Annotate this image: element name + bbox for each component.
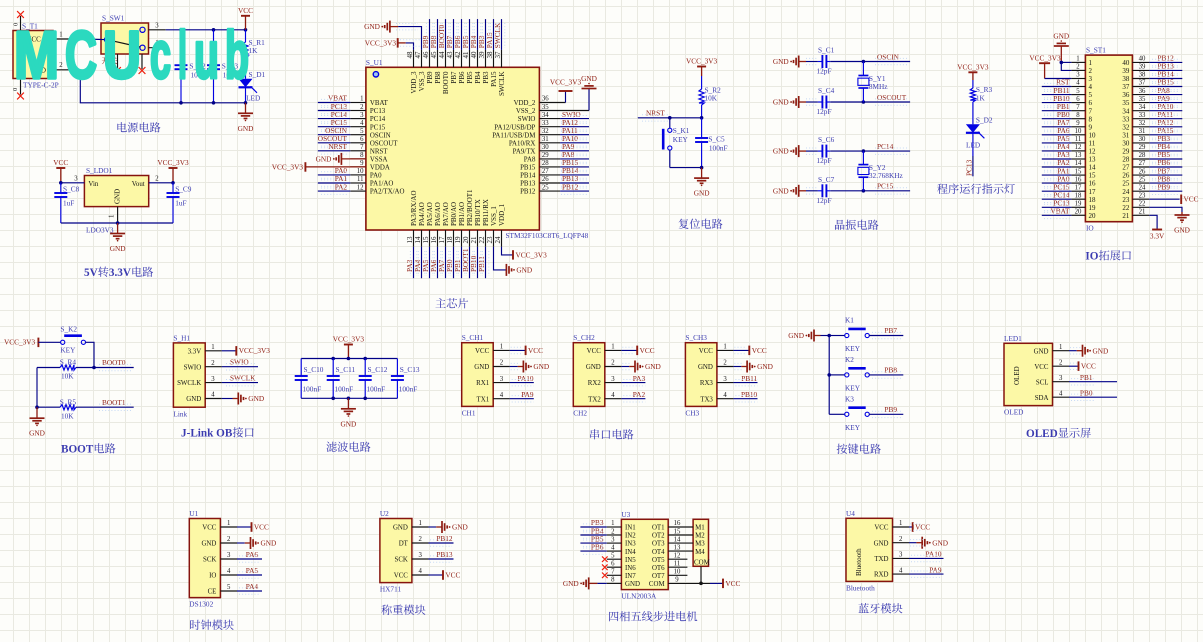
svg-text:S_D1: S_D1 — [249, 70, 266, 79]
svg-text:5: 5 — [227, 584, 231, 591]
svg-text:SCK: SCK — [203, 557, 216, 564]
capacitor C2 104 — [180, 30, 182, 65]
svg-text:GND: GND — [1053, 32, 1069, 41]
wire and net label PB12 — [560, 190, 589, 192]
svg-text:S_CH1: S_CH1 — [462, 333, 484, 342]
net label NRST and wire — [638, 117, 702, 119]
U1 bottom pin 20 PB2/BOOT1 — [469, 230, 471, 247]
wire and net label PA10 — [560, 142, 589, 144]
ST1 left pin 2 — [1071, 69, 1085, 71]
LDO regulator LDO1 LDO3V3 — [84, 176, 148, 207]
VCC power symbol at LDO input — [56, 167, 65, 169]
svg-text:M4: M4 — [695, 549, 705, 556]
CH3 pin 2 GND — [717, 366, 734, 368]
svg-text:GND: GND — [773, 57, 789, 66]
svg-text:PA3: PA3 — [633, 374, 646, 383]
capacitor C11 100nF — [332, 359, 334, 377]
U3 OT6 stub — [668, 566, 687, 568]
CH3 PB10 net — [733, 398, 757, 400]
svg-text:S_D2: S_D2 — [976, 116, 993, 125]
GND symbol power circuit — [245, 103, 247, 114]
svg-text:16: 16 — [1089, 180, 1097, 188]
ST1 left pin 9 — [1071, 126, 1085, 128]
wire and net label BOOT0 — [94, 367, 134, 369]
svg-text:PC15: PC15 — [370, 124, 386, 131]
svg-text:4: 4 — [611, 544, 615, 551]
svg-text:34: 34 — [1122, 107, 1130, 115]
ST1 pin 21 to 3.3V — [1149, 215, 1157, 229]
U1 top pin 38 PA15 — [493, 50, 495, 67]
svg-text:GND: GND — [874, 540, 889, 547]
svg-text:COM: COM — [694, 560, 710, 567]
U1 clock net PA5 — [237, 574, 262, 576]
U3 net PB4 — [580, 534, 606, 536]
wire and net label PA2 — [318, 190, 351, 192]
svg-text:19: 19 — [1089, 204, 1097, 212]
title 串口电路 — [590, 429, 599, 439]
wire and net label PA8 — [560, 158, 589, 160]
svg-text:S_C10: S_C10 — [304, 365, 324, 374]
svg-text:IO: IO — [209, 573, 216, 580]
svg-text:VCC_3V3: VCC_3V3 — [550, 78, 582, 87]
svg-text:S_K2: S_K2 — [60, 325, 77, 334]
svg-text:BOOT1: BOOT1 — [102, 398, 126, 407]
svg-text:4: 4 — [723, 392, 727, 399]
junction dots crystal 1 — [862, 60, 866, 64]
svg-text:21: 21 — [1139, 209, 1146, 216]
VCC_3V3 power symbol filter — [344, 344, 353, 346]
U1 bottom pin 14 PA4/AO — [421, 230, 423, 247]
ST1 right pin 22 — [1132, 206, 1149, 208]
wire and net label PA15 — [1149, 134, 1182, 136]
svg-text:PB15: PB15 — [520, 165, 536, 172]
title 复位电路 — [679, 219, 689, 229]
ST1 right pin 38 — [1132, 78, 1149, 80]
U2 GND net — [429, 526, 437, 528]
svg-text:PB1: PB1 — [1080, 373, 1093, 382]
svg-text:15: 15 — [674, 528, 681, 535]
svg-text:11: 11 — [357, 176, 364, 183]
U1 bottom pin 18 PB0/AO — [453, 230, 455, 247]
svg-text:25: 25 — [1139, 176, 1146, 183]
wire and net label PA9 — [560, 150, 589, 152]
svg-text:PA12/USB/DP: PA12/USB/DP — [494, 124, 535, 131]
wire and net label PA15 — [493, 19, 495, 50]
svg-text:IN2: IN2 — [625, 533, 636, 540]
VCC power symbol top right — [241, 15, 250, 17]
svg-text:39: 39 — [1139, 64, 1146, 71]
CH3 GND net — [733, 366, 741, 368]
U3 net PB3 — [580, 526, 606, 528]
wire and net label PC14 — [1042, 198, 1072, 200]
svg-text:27: 27 — [1139, 160, 1146, 167]
svg-text:39: 39 — [1122, 67, 1130, 75]
svg-text:26: 26 — [1139, 168, 1146, 175]
wire to net OSCIN — [830, 61, 910, 63]
svg-text:NRST: NRST — [646, 108, 665, 117]
wire and net label PB0 — [453, 247, 455, 278]
ST1 right pin 27 — [1132, 166, 1149, 168]
svg-text:26: 26 — [1122, 172, 1130, 180]
svg-text:12: 12 — [357, 184, 364, 191]
junction dots NRST node — [668, 116, 672, 120]
wire and net label PB6 — [461, 19, 463, 50]
svg-text:GND: GND — [238, 124, 254, 133]
svg-text:VCC_3V3: VCC_3V3 — [4, 338, 36, 347]
svg-text:J-Link OB: J-Link OB — [181, 428, 233, 440]
svg-text:CH1: CH1 — [462, 409, 476, 418]
svg-text:21: 21 — [1122, 212, 1130, 220]
capacitor S_C7 12pF — [806, 190, 818, 192]
U1 bottom pin 13 PA3/RX/AO — [413, 230, 415, 247]
capacitor C13 100nF — [396, 359, 398, 377]
filter top rail — [301, 358, 397, 360]
svg-text:GND: GND — [186, 396, 201, 403]
svg-text:VCC_3V3: VCC_3V3 — [272, 162, 304, 171]
svg-text:VDD_3: VDD_3 — [410, 71, 418, 94]
svg-text:34: 34 — [542, 112, 549, 119]
svg-text:S_U1: S_U1 — [366, 58, 383, 67]
svg-text:VCC_3V3: VCC_3V3 — [157, 158, 189, 167]
switch SW1 — [101, 23, 149, 54]
U3 pin 6 no-ERC cross — [602, 564, 608, 570]
svg-text:100nF: 100nF — [709, 143, 728, 152]
svg-text:DS1302: DS1302 — [189, 600, 213, 609]
wire and net label PC13 vertical — [972, 156, 974, 176]
svg-text:34: 34 — [1139, 104, 1146, 111]
U3 OT5 stub — [668, 558, 687, 560]
title 按键电路 — [837, 444, 848, 454]
wire and net label PB13 — [560, 182, 589, 184]
U1 clock GND net — [237, 542, 245, 544]
wire and net label PB0 — [1042, 118, 1072, 120]
svg-text:100nF: 100nF — [335, 385, 354, 394]
svg-text:U4: U4 — [846, 509, 855, 518]
wire and net label SWIO — [222, 366, 258, 368]
ST1 right pin 29 — [1132, 150, 1149, 152]
capacitor S_C1 12pF — [806, 61, 818, 63]
svg-text:18: 18 — [446, 236, 454, 244]
wire and net label PB7 — [869, 335, 903, 337]
ST1 left pin 11 — [1071, 142, 1085, 144]
svg-text:1K: 1K — [249, 46, 259, 55]
svg-text:31: 31 — [542, 136, 549, 143]
svg-text:VCC: VCC — [394, 573, 409, 580]
svg-text:29: 29 — [1139, 144, 1146, 151]
svg-text:OSCIN: OSCIN — [877, 52, 900, 61]
svg-text:31: 31 — [1139, 128, 1146, 135]
ST1 pin 22 to GND — [1149, 207, 1182, 212]
wire and net label NRST — [318, 150, 351, 152]
U1 top pin 41 PB5 — [469, 50, 471, 67]
svg-text:OT5: OT5 — [652, 557, 665, 564]
svg-text:8: 8 — [360, 152, 364, 159]
svg-text:17: 17 — [1089, 188, 1097, 196]
svg-text:c: c — [150, 18, 171, 93]
wire and net label PA1 — [1042, 174, 1072, 176]
U1 left pin 12 PA2/TX/AO — [350, 190, 366, 192]
wire and net label PC14 — [318, 118, 351, 120]
wire T1 pin1 to SW1 — [80, 38, 104, 41]
svg-text:2: 2 — [899, 536, 903, 543]
svg-text:27: 27 — [542, 168, 549, 175]
ST1 left pin 1 — [1071, 61, 1085, 63]
VCC_3V3 power symbol indicator — [968, 71, 977, 73]
key K1 reset button — [669, 118, 671, 128]
svg-text:M2: M2 — [695, 533, 705, 540]
ST1 left pin 5 — [1071, 94, 1085, 96]
LDO pin 3 — [61, 182, 85, 184]
svg-text:1: 1 — [418, 520, 421, 527]
svg-text:TX1: TX1 — [477, 396, 490, 403]
svg-text:S_H1: S_H1 — [173, 333, 190, 342]
svg-text:PA6: PA6 — [246, 550, 259, 559]
svg-text:3: 3 — [211, 376, 215, 383]
ST1 right pin 31 — [1132, 134, 1149, 136]
T1 shield stub bottom with no-ERC cross — [20, 79, 22, 95]
wire and net label PB10 — [477, 247, 479, 278]
U3 OT7 stub — [668, 574, 687, 576]
U1 top pin 37 SWCLK — [501, 50, 503, 67]
svg-text:29: 29 — [542, 152, 549, 159]
U3 pin 5 no-ERC cross — [602, 556, 608, 562]
svg-text:10K: 10K — [61, 372, 74, 381]
module U3 ULN2003A body — [621, 519, 668, 589]
U3 left pin 1 IN1 — [607, 526, 622, 528]
svg-text:2: 2 — [59, 62, 63, 69]
svg-text:TX2: TX2 — [588, 396, 601, 403]
GND symbol above ST1 — [1060, 46, 1062, 62]
svg-text:OSCIN: OSCIN — [370, 132, 391, 139]
svg-text:8: 8 — [1089, 115, 1093, 123]
svg-text:1: 1 — [1089, 59, 1093, 67]
svg-text:12pF: 12pF — [817, 107, 832, 116]
svg-text:LED: LED — [966, 141, 980, 150]
svg-text:VSS_2: VSS_2 — [516, 108, 536, 115]
svg-text:32.768KHz: 32.768KHz — [869, 171, 904, 180]
ST1 left pin 15 — [1071, 174, 1085, 176]
svg-text:VCC: VCC — [254, 522, 269, 531]
svg-text:GND: GND — [316, 154, 332, 163]
svg-text:37: 37 — [1139, 80, 1146, 87]
U1 clock net PA6 — [237, 558, 262, 560]
svg-text:31: 31 — [1122, 131, 1130, 139]
U2 net PB13 — [429, 558, 454, 560]
svg-text:PB11: PB11 — [477, 256, 486, 272]
svg-text:26: 26 — [542, 176, 549, 183]
svg-text:Link: Link — [173, 410, 187, 419]
svg-text:PB7: PB7 — [884, 326, 897, 335]
svg-text:IN1: IN1 — [625, 525, 636, 532]
svg-text:35: 35 — [542, 104, 549, 111]
U1 clock pin 1 VCC — [220, 526, 237, 528]
svg-text:PB11: PB11 — [741, 374, 757, 383]
CH3 pin 3 RX3 — [717, 382, 734, 384]
wire and net label PB6 — [1149, 166, 1182, 168]
svg-text:2: 2 — [500, 360, 504, 367]
wire and net label PC13 — [1042, 206, 1072, 208]
svg-text:4: 4 — [500, 392, 504, 399]
U1 pin 23 VSS_1 to GND — [494, 247, 507, 270]
svg-text:33: 33 — [542, 120, 549, 127]
svg-text:M3: M3 — [695, 541, 705, 548]
wire and net label PB3 — [1149, 142, 1182, 144]
svg-text:100nF: 100nF — [303, 385, 322, 394]
svg-text:PB7: PB7 — [450, 71, 458, 84]
svg-text:IO: IO — [1085, 251, 1098, 263]
svg-text:14: 14 — [414, 236, 422, 244]
U2 pin 3 SCK — [412, 558, 429, 560]
wire and net label PA7 — [445, 247, 447, 278]
GND symbol LDO — [117, 223, 119, 234]
wire and net label PA6 — [437, 247, 439, 278]
svg-text:BOOT0: BOOT0 — [102, 358, 126, 367]
CH3 VCC net — [733, 349, 749, 351]
svg-text:30: 30 — [1122, 139, 1130, 147]
wire and net label VBAT — [1042, 214, 1072, 216]
svg-text:S_C1: S_C1 — [818, 46, 835, 55]
U1 top pin 42 PB6 — [461, 50, 463, 67]
U1 left pin 7 NRST — [350, 150, 366, 152]
svg-text:4: 4 — [227, 568, 231, 575]
U1 left pin 11 PA1/AO — [350, 182, 366, 184]
wire and net label PA11 — [560, 134, 589, 136]
svg-text:7: 7 — [360, 144, 364, 151]
capacitor C9 1uF — [172, 183, 174, 193]
svg-text:OSCOUT: OSCOUT — [877, 93, 907, 102]
svg-text:11: 11 — [674, 560, 681, 567]
U1 clock pin 4 IO — [220, 574, 237, 576]
U1 clock pin 2 GND — [220, 542, 237, 544]
U1 top pin 43 PB7 — [453, 50, 455, 67]
GND symbol filter — [347, 398, 349, 409]
U1 left pin 8 VSSA — [350, 158, 366, 160]
svg-text:36: 36 — [1139, 88, 1146, 95]
ST1 right pin 32 — [1132, 126, 1149, 128]
svg-text:RXD: RXD — [874, 572, 889, 579]
svg-text:20: 20 — [1075, 209, 1082, 216]
svg-text:1: 1 — [360, 96, 363, 103]
svg-text:3: 3 — [1076, 72, 1080, 79]
svg-text:U3: U3 — [621, 510, 630, 519]
ST1 left pin 16 — [1071, 182, 1085, 184]
svg-text:18: 18 — [1089, 196, 1097, 204]
wire and net label PA0 — [318, 174, 351, 176]
svg-text:GND: GND — [29, 429, 45, 438]
LED D1 — [239, 79, 253, 88]
svg-text:GND: GND — [698, 364, 713, 371]
svg-text:5: 5 — [611, 552, 615, 559]
U3 pin 7 no-ERC cross — [602, 573, 608, 579]
wire and net label PB4 — [477, 19, 479, 50]
U4 pin 1 VCC — [893, 526, 910, 528]
title 滤波电路 — [326, 442, 336, 452]
svg-text:18: 18 — [1075, 192, 1082, 199]
U4 VCC net — [909, 526, 913, 528]
svg-text:RX1: RX1 — [476, 380, 490, 387]
capacitor C3 104 — [213, 30, 215, 65]
svg-text:44: 44 — [438, 51, 446, 59]
CH2 PA2 net — [621, 398, 645, 400]
svg-text:K1: K1 — [845, 316, 854, 325]
svg-text:25: 25 — [542, 184, 549, 191]
U1 pin-1 indicator circle — [373, 72, 378, 77]
resistor R4 10K — [37, 367, 60, 369]
svg-text:5: 5 — [360, 128, 364, 135]
svg-text:PA8: PA8 — [524, 156, 536, 163]
wire and net label PA4 — [1042, 150, 1072, 152]
svg-text:KEY: KEY — [845, 383, 861, 392]
svg-text:7: 7 — [611, 569, 615, 576]
svg-text:K2: K2 — [845, 355, 854, 364]
svg-text:M1: M1 — [695, 525, 705, 532]
svg-text:6: 6 — [360, 136, 364, 143]
svg-text:46: 46 — [422, 51, 430, 59]
svg-text:VDDA: VDDA — [370, 165, 390, 172]
svg-text:BOOT: BOOT — [61, 444, 94, 456]
svg-text:VCC: VCC — [587, 348, 602, 355]
LED1 pin 2 VCC — [1053, 365, 1070, 367]
junction dots on VCC wire — [179, 28, 183, 32]
junction dots on ground rail — [179, 101, 183, 105]
LDO pin 1 GND — [117, 207, 119, 223]
CH2 pin 2 GND — [605, 366, 622, 368]
title 电源电路 — [117, 122, 126, 132]
svg-text:GND: GND — [114, 189, 122, 204]
T1 pin 2 GND — [53, 69, 80, 71]
U3 left pin 8 GND — [607, 582, 622, 584]
svg-text:100nF: 100nF — [367, 385, 386, 394]
wire and net label PB1 — [461, 247, 463, 278]
svg-text:2: 2 — [611, 360, 615, 367]
svg-text:PA15: PA15 — [490, 71, 498, 87]
H1 pin4 to GND — [222, 398, 233, 400]
wire and net label PB4 — [1149, 150, 1182, 152]
svg-text:VSS_1: VSS_1 — [490, 206, 498, 226]
svg-text:41: 41 — [462, 51, 470, 59]
svg-text:1uF: 1uF — [63, 199, 74, 208]
svg-text:5V: 5V — [84, 267, 98, 279]
U4 pin 4 RXD — [893, 573, 910, 575]
key K1 — [829, 335, 845, 337]
svg-text:5: 5 — [1076, 88, 1080, 95]
U1 pin 36 VDD_2 to VCC_3V3 — [539, 102, 565, 104]
svg-text:SWIO: SWIO — [184, 364, 202, 371]
wire T1 pin2 down to ground rail — [80, 70, 245, 103]
ST1 right pin 30 — [1132, 142, 1149, 144]
wire and net label PA3 — [413, 247, 415, 278]
svg-text:VCC: VCC — [238, 6, 253, 15]
SW1 pin 3 — [149, 29, 166, 31]
title 程序运行指示灯 — [937, 184, 948, 194]
wire and net label PB10 — [1042, 102, 1072, 104]
svg-text:VCC: VCC — [699, 348, 714, 355]
svg-text:2: 2 — [1076, 64, 1080, 71]
title 晶振电路 — [835, 220, 845, 230]
svg-text:3: 3 — [227, 552, 231, 559]
wire and net label OSCIN — [318, 134, 351, 136]
wire and net label PB12 — [1149, 61, 1182, 63]
wire GND to ST1 pins 1-2 — [1061, 61, 1071, 63]
svg-text:VCC: VCC — [1081, 362, 1096, 371]
resistor R1 1K — [245, 30, 247, 42]
svg-text:CH2: CH2 — [573, 409, 587, 418]
svg-text:PB6: PB6 — [458, 71, 466, 84]
capacitor S_C6 12pF — [806, 150, 818, 152]
svg-text:PA10/RX: PA10/RX — [509, 140, 536, 147]
U1 bottom pin 22 PB11/RX — [485, 230, 487, 247]
svg-text:KEY: KEY — [60, 346, 76, 355]
